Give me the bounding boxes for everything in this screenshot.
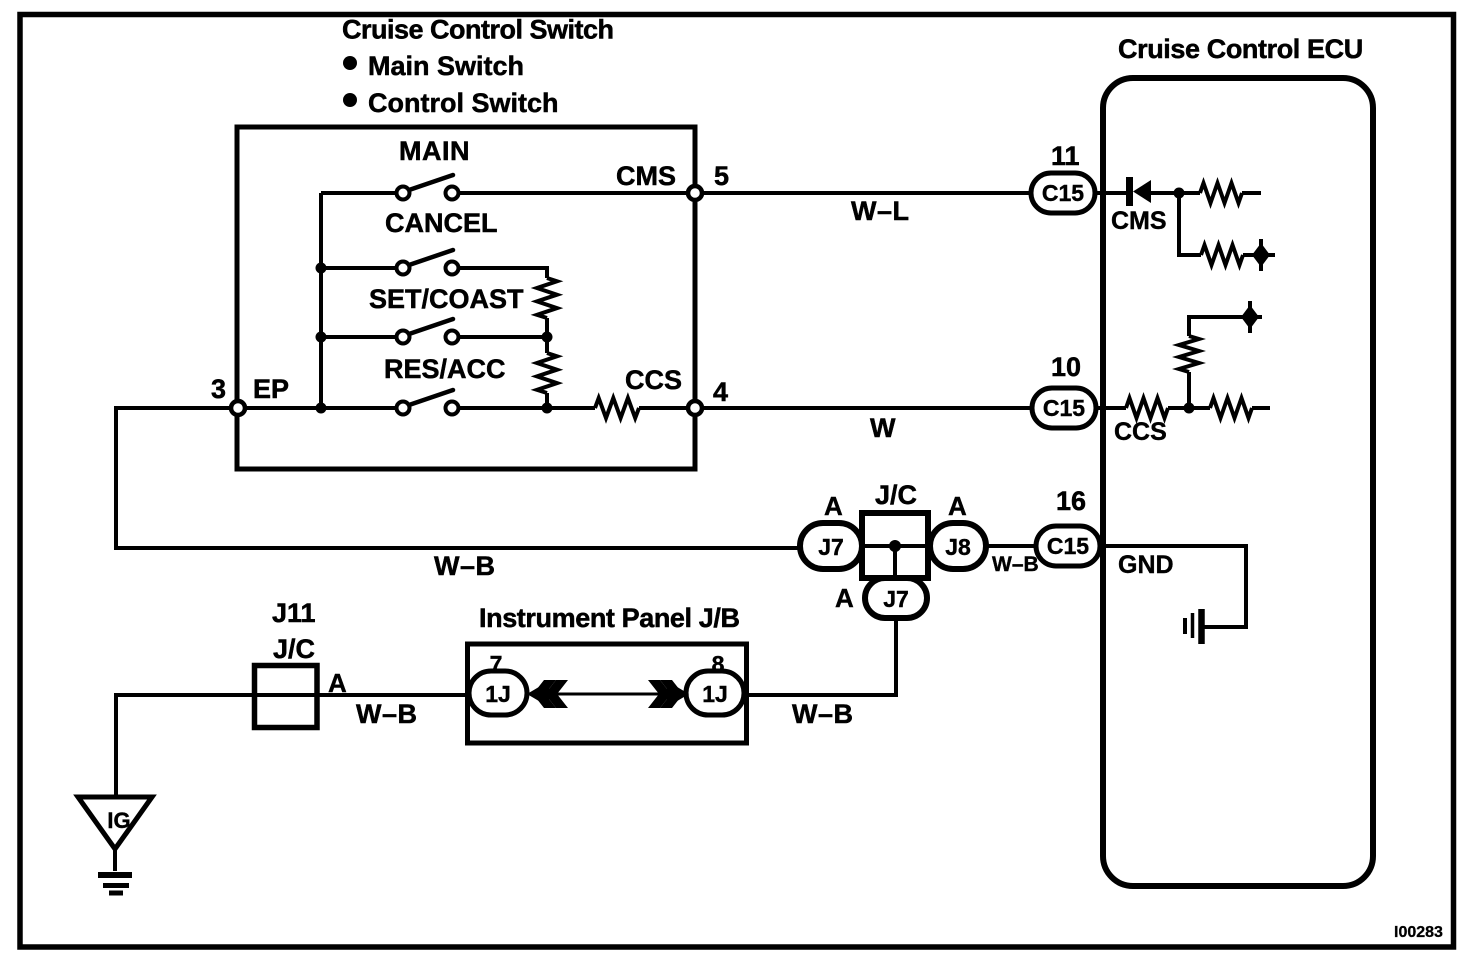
svg-text:CMS: CMS [616, 161, 676, 191]
svg-text:1J: 1J [485, 681, 511, 707]
svg-text:1J: 1J [702, 681, 728, 707]
svg-text:W–B: W–B [992, 553, 1039, 576]
svg-text:J/C: J/C [875, 480, 917, 510]
svg-text:11: 11 [1051, 141, 1080, 171]
svg-text:A: A [835, 583, 854, 613]
svg-text:W–B: W–B [356, 699, 418, 729]
svg-text:J/C: J/C [273, 634, 315, 664]
svg-text:CCS: CCS [625, 365, 682, 395]
svg-text:IG: IG [107, 808, 130, 833]
svg-text:Instrument Panel J/B: Instrument Panel J/B [479, 603, 740, 633]
svg-text:EP: EP [253, 374, 289, 404]
svg-text:Main Switch: Main Switch [368, 51, 524, 81]
svg-text:Cruise Control Switch: Cruise Control Switch [342, 15, 614, 45]
svg-text:5: 5 [714, 161, 729, 191]
svg-text:C15: C15 [1047, 533, 1089, 559]
svg-text:Cruise Control ECU: Cruise Control ECU [1118, 34, 1363, 64]
svg-text:CANCEL: CANCEL [385, 208, 498, 238]
svg-text:Control Switch: Control Switch [368, 88, 559, 118]
svg-text:A: A [328, 668, 347, 698]
svg-text:C15: C15 [1043, 395, 1085, 421]
svg-text:W–B: W–B [434, 551, 496, 581]
svg-text:CMS: CMS [1111, 207, 1167, 235]
svg-text:GND: GND [1118, 551, 1174, 579]
svg-text:MAIN: MAIN [399, 136, 470, 166]
svg-text:3: 3 [211, 374, 226, 404]
svg-text:SET/COAST: SET/COAST [369, 284, 524, 314]
svg-text:C15: C15 [1042, 180, 1084, 206]
svg-text:CCS: CCS [1114, 418, 1167, 446]
svg-text:W: W [870, 413, 896, 443]
svg-text:16: 16 [1056, 486, 1086, 516]
svg-text:J11: J11 [272, 598, 316, 628]
svg-text:7: 7 [490, 651, 503, 677]
svg-text:A: A [948, 491, 967, 521]
svg-text:4: 4 [713, 377, 728, 407]
svg-text:W–L: W–L [851, 196, 910, 226]
svg-text:J7: J7 [883, 586, 909, 612]
svg-text:W–B: W–B [792, 699, 854, 729]
svg-text:A: A [824, 491, 843, 521]
svg-text:10: 10 [1051, 352, 1081, 382]
svg-text:J7: J7 [818, 534, 844, 560]
svg-text:RES/ACC: RES/ACC [384, 354, 506, 384]
svg-text:8: 8 [712, 651, 725, 677]
svg-text:J8: J8 [945, 534, 971, 560]
svg-text:I00283: I00283 [1394, 924, 1443, 941]
